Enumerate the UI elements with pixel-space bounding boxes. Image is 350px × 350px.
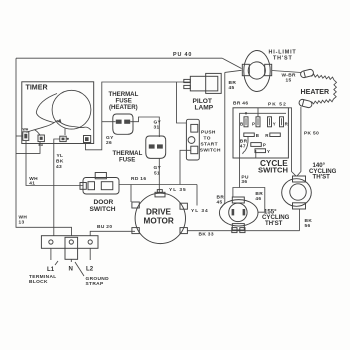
svg-text:STRAP: STRAP xyxy=(86,281,104,287)
wire GY 51 fuse2 to motor top xyxy=(158,158,160,192)
svg-text:46: 46 xyxy=(255,196,261,202)
cycle switch terminal Y xyxy=(268,117,272,127)
timer T3 lead xyxy=(54,139,60,143)
svg-text:Y: Y xyxy=(273,122,276,127)
push to start switch xyxy=(186,119,199,160)
node junction to 155 thermostat top xyxy=(233,188,265,213)
wire T1 stub to bus xyxy=(16,135,23,137)
svg-text:BK 33: BK 33 xyxy=(199,232,214,238)
svg-text:BU: BU xyxy=(39,143,44,147)
wire W-BR 15 to heater xyxy=(272,71,302,73)
svg-text:YL 34: YL 34 xyxy=(191,208,209,214)
door switch xyxy=(83,178,119,195)
svg-text:PK 52: PK 52 xyxy=(268,101,287,107)
cycle switch contact R xyxy=(270,133,281,137)
svg-text:45: 45 xyxy=(229,85,235,91)
svg-text:PU 40: PU 40 xyxy=(173,52,192,58)
timer cam lobe xyxy=(36,94,57,123)
svg-text:DRIVE: DRIVE xyxy=(146,208,172,217)
svg-text:Y: Y xyxy=(267,149,270,154)
svg-text:36: 36 xyxy=(241,179,247,185)
wire BK 56 xyxy=(299,209,301,231)
svg-text:L2: L2 xyxy=(86,266,94,273)
svg-text:START: START xyxy=(201,142,218,148)
svg-text:(HEATER): (HEATER) xyxy=(109,104,138,111)
wire GY 31 fuse1 to fuse2 xyxy=(130,117,159,137)
155 cycling thermostat xyxy=(219,200,258,226)
wire PU 40 top bus xyxy=(16,57,222,59)
terminal legs L1 N L2 xyxy=(50,248,52,260)
svg-text:BR 46: BR 46 xyxy=(233,101,248,107)
svg-text:YL 35: YL 35 xyxy=(169,187,187,193)
heater connector bottom xyxy=(298,99,312,109)
svg-text:TH'ST: TH'ST xyxy=(273,56,293,62)
cycle switch terminal B xyxy=(244,117,248,127)
wire YL-BK 43 timer to L1 xyxy=(53,143,55,237)
timer terminal BU xyxy=(38,135,44,142)
svg-text:N: N xyxy=(69,266,73,273)
node junction B terminal xyxy=(245,112,247,114)
svg-text:P: P xyxy=(263,142,266,147)
svg-text:SWITCH: SWITCH xyxy=(90,206,116,213)
wire RD 16 door switch to motor xyxy=(119,184,197,186)
svg-text:GY: GY xyxy=(154,165,162,171)
svg-text:B: B xyxy=(256,133,259,138)
pointer ground strap xyxy=(75,262,84,276)
svg-text:HI-LIMIT: HI-LIMIT xyxy=(269,50,297,56)
cycle switch box xyxy=(233,108,288,158)
thermal fuse (heater) body xyxy=(113,114,133,134)
svg-text:WH: WH xyxy=(23,128,29,132)
wire to push-to-start switch xyxy=(177,82,187,123)
svg-text:TO: TO xyxy=(204,136,211,142)
cycle switch internal bus xyxy=(240,113,286,158)
cycle switch terminal R xyxy=(280,117,284,127)
wire BR 46 cycle switch stub xyxy=(255,150,257,158)
hi-limit thermostat xyxy=(244,51,270,92)
svg-text:L1: L1 xyxy=(47,266,55,273)
svg-text:56: 56 xyxy=(305,223,311,229)
cycle switch contact P xyxy=(251,143,261,147)
timer box xyxy=(22,82,94,144)
drive motor xyxy=(135,193,185,243)
svg-text:TIMER: TIMER xyxy=(26,83,48,91)
svg-text:TH'ST: TH'ST xyxy=(265,220,283,227)
ground strap xyxy=(65,237,78,259)
timer cam circle xyxy=(52,90,91,129)
svg-text:B: B xyxy=(240,122,243,127)
svg-text:47: 47 xyxy=(240,144,246,150)
wire branch to thermal fuse heater xyxy=(102,121,116,123)
timer terminal GY xyxy=(84,136,91,143)
wire GY 26 timer T4 to fuse / pilot xyxy=(86,82,191,150)
svg-text:45: 45 xyxy=(217,200,223,206)
svg-text:FUSE: FUSE xyxy=(119,156,135,163)
thermal fuse 2 body xyxy=(146,136,166,158)
timer arrow pointer xyxy=(57,119,62,123)
140 cycling thermostat xyxy=(282,179,312,207)
svg-text:51: 51 xyxy=(154,171,160,177)
svg-text:PK 50: PK 50 xyxy=(304,131,319,137)
wire PK 52 to 140 thermostat xyxy=(257,108,259,117)
timer lever strand from BU terminal xyxy=(35,130,41,136)
svg-text:BLOCK: BLOCK xyxy=(29,279,48,285)
heater connector top xyxy=(300,69,314,79)
svg-text:26: 26 xyxy=(106,140,112,146)
wire WH 41 timer to door switch xyxy=(26,141,83,186)
wire PU 36 cycle switch to 155 thermostat xyxy=(239,158,241,188)
wire WH 13 left bus xyxy=(16,58,72,236)
svg-text:LAMP: LAMP xyxy=(195,104,214,111)
wire push-start to motor circuit xyxy=(180,150,191,184)
wire PK 50 heater to 140 thermostat xyxy=(297,107,301,176)
svg-text:SWITCH: SWITCH xyxy=(200,148,221,154)
wire BK 33 motor to thermostats xyxy=(187,230,299,232)
svg-text:HEATER: HEATER xyxy=(301,88,330,96)
cycle switch terminal P xyxy=(256,117,260,127)
cycle switch contact Y xyxy=(255,149,266,153)
svg-text:13: 13 xyxy=(19,220,25,226)
svg-text:15: 15 xyxy=(286,78,292,84)
timer switch wavy lever xyxy=(26,120,57,132)
timer terminal WH xyxy=(23,132,29,141)
wire bus to timer BU terminal xyxy=(16,142,40,153)
heater element xyxy=(312,74,335,80)
svg-text:PUSH: PUSH xyxy=(201,130,216,136)
svg-text:P: P xyxy=(252,122,255,127)
terminal block xyxy=(41,236,98,249)
svg-text:41: 41 xyxy=(29,180,35,186)
pilot lamp xyxy=(190,76,218,91)
cycle switch contact linkage xyxy=(247,137,249,142)
wire BU 20 terminal block to motor xyxy=(90,231,135,236)
pointer L1 xyxy=(55,261,58,265)
svg-text:31: 31 xyxy=(154,125,160,131)
svg-text:YL: YL xyxy=(57,153,64,159)
wire BR 45 bus hi-limit to 155 thermostat xyxy=(225,70,242,72)
timer T contact tick xyxy=(64,129,66,136)
cycle switch contact B xyxy=(244,133,255,137)
svg-text:43: 43 xyxy=(56,164,62,170)
svg-text:BK: BK xyxy=(56,159,64,165)
timer terminal T xyxy=(60,136,66,141)
svg-text:TH'ST: TH'ST xyxy=(313,174,331,181)
svg-text:RD 16: RD 16 xyxy=(131,176,146,182)
svg-text:BU 20: BU 20 xyxy=(97,224,112,230)
svg-text:SWITCH: SWITCH xyxy=(258,166,288,175)
svg-text:MOTOR: MOTOR xyxy=(144,217,174,226)
